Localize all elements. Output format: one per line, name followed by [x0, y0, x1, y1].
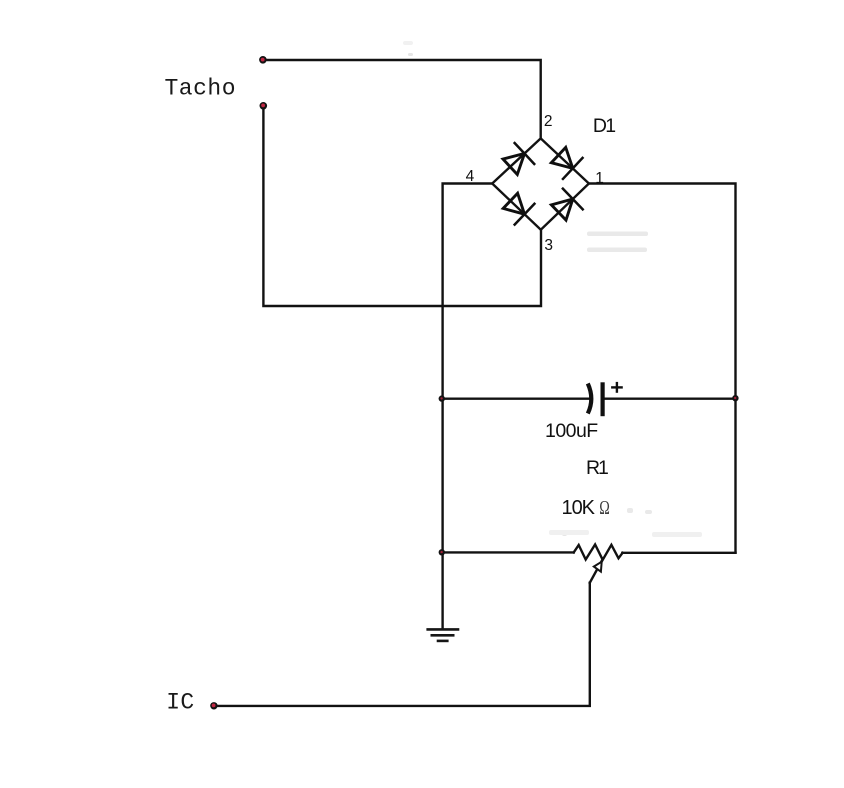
- svg-text:Ω: Ω: [599, 497, 610, 519]
- svg-text:1: 1: [598, 457, 609, 479]
- svg-text:4: 4: [466, 168, 475, 185]
- svg-text:Tacho: Tacho: [165, 75, 236, 101]
- svg-text:3: 3: [544, 237, 553, 254]
- svg-text:2: 2: [544, 113, 553, 130]
- svg-text:10K: 10K: [562, 497, 596, 519]
- svg-text:100uF: 100uF: [545, 420, 598, 442]
- svg-text:IC: IC: [166, 690, 194, 716]
- svg-text:1: 1: [595, 170, 604, 187]
- svg-text:1: 1: [605, 115, 616, 137]
